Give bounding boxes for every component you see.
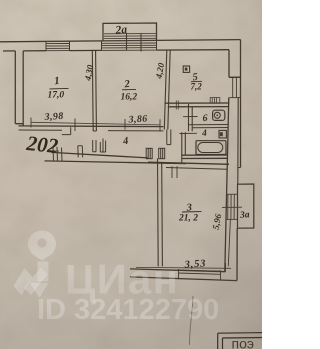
room3 bottom-right outer corner: [236, 228, 238, 281]
corridor top wall (rooms bottom): [19, 125, 164, 128]
balcony 2a hatch: [104, 34, 156, 39]
right wall inner below window: [225, 98, 229, 272]
right inner wall above kitchen window: [229, 50, 241, 78]
room3 bottom wall: [130, 269, 237, 281]
balcony 2a box: [103, 23, 157, 41]
bathtub: [196, 141, 226, 155]
WC sink fixture: [213, 110, 225, 120]
door jambs to rooms (corridor top): [93, 139, 106, 153]
dim line 3.53: [136, 266, 231, 269]
right wall second line room3 section: [228, 219, 230, 266]
bath bottom wall: [182, 155, 228, 159]
room1 door leaf hook: [62, 127, 71, 134]
wall between WC and bath: [189, 125, 228, 128]
room3 top wall: [148, 162, 229, 164]
wall between room1 and room2: [92, 50, 96, 131]
window room2 band: [102, 43, 157, 50]
balcony door posts: [127, 33, 142, 52]
bath door tick: [180, 132, 198, 134]
bath left wall: [182, 132, 186, 162]
kitchen vent square: [183, 66, 189, 72]
dimension line along corridor wall: [31, 122, 160, 125]
outer top boundary wall line: [0, 40, 241, 42]
kitchen window (right wall): [229, 77, 241, 97]
room3 window to balcony 3a: [228, 194, 235, 219]
WC door tick: [183, 116, 198, 118]
faint crease line: [189, 296, 193, 345]
dimension ticks: [31, 118, 160, 132]
kitchen bottom wall: [165, 103, 229, 107]
left exterior wall (double): [15, 51, 23, 126]
right wall second line (bath section): [238, 98, 241, 184]
room3 door swing ticks: [172, 166, 177, 178]
room3 door jamb posts: [146, 148, 165, 158]
corridor bottom wall (entry): [52, 152, 149, 158]
cian pin logo: [14, 231, 57, 298]
top inner wall line: [3, 50, 229, 51]
WC left wall: [189, 104, 193, 131]
right exterior: outer line: [240, 40, 242, 168]
window room1: [46, 41, 70, 51]
entry door jambs: [51, 146, 82, 162]
kitchen vent hatched block: [210, 98, 220, 104]
room3 left wall: [158, 159, 163, 267]
room3 bottom window: [179, 269, 221, 280]
bath heater box: [219, 130, 226, 138]
kitchen door leaf: [167, 130, 171, 145]
wall between room2 and kitchen: [164, 50, 170, 129]
kitchen door jamb ticks: [176, 101, 178, 110]
balcony 3a box: [237, 184, 254, 228]
